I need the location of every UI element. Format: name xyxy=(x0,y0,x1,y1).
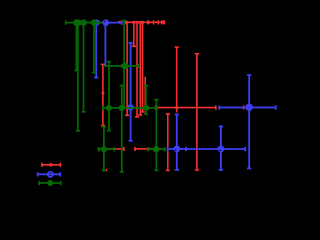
red top-row x error bar xyxy=(125,21,165,23)
blue point (220.9,148.9) xyxy=(186,148,245,150)
green row-108 x error bar xyxy=(103,107,158,109)
green vertical G3 xyxy=(83,23,85,112)
green vertical G2 xyxy=(77,23,79,131)
red vertical (167.8) xyxy=(167,114,169,170)
red lower bar A y=148.9 xyxy=(99,148,124,150)
blue vertical (105.6) xyxy=(104,23,106,66)
red dots on top bar xyxy=(125,21,128,24)
blue point (176.8,148.9) xyxy=(168,148,187,150)
red vertical (127.0) xyxy=(126,22,128,115)
red vertical (176.7) xyxy=(176,47,178,112)
green circles top row xyxy=(73,19,80,26)
green point (156.2,149.2) xyxy=(155,100,157,171)
green point (108.9,107.9) xyxy=(108,62,110,131)
green point (121.4,107.9) xyxy=(121,85,123,171)
red verticals from top row xyxy=(133,22,135,46)
green point (125,65.7) xyxy=(123,21,125,109)
green point (104,149.2) xyxy=(103,127,105,171)
blue circles top row xyxy=(93,19,99,25)
green vertical G4 xyxy=(93,23,95,73)
blue top-row x bar xyxy=(93,22,122,24)
green vertical G1 xyxy=(75,23,77,71)
legend blue entry xyxy=(38,172,61,177)
legend red entry xyxy=(42,163,61,167)
red mid bar y=107.6 xyxy=(156,107,216,109)
green point (146.3,107.9) xyxy=(145,86,147,114)
red speck near blue circle 249 xyxy=(243,105,245,109)
red vertical (196.9) xyxy=(196,54,198,170)
green top-row x error bar xyxy=(66,22,103,24)
red lone dot (119.5,22.3) xyxy=(118,21,121,24)
blue point (249.2,107.4) xyxy=(219,107,275,109)
blue point (130.6,107.4) xyxy=(127,106,135,108)
legend green entry xyxy=(39,180,60,186)
red R1 vertical (103.3) xyxy=(102,64,104,125)
red lower bar B xyxy=(135,148,162,150)
red vertical (105.5) xyxy=(106,169,108,171)
blue vertical (96.7) xyxy=(95,23,97,78)
